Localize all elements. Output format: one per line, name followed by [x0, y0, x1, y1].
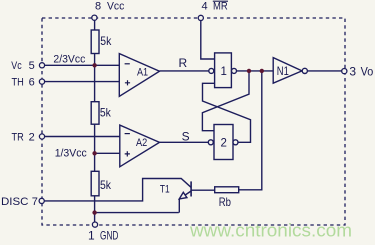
svg-text:www.cntronics.com: www.cntronics.com	[189, 221, 352, 241]
bubble latch1 output	[232, 68, 237, 73]
wire DISC pin7 to T1 collector	[44, 179, 191, 201]
pin 3 terminal	[342, 69, 347, 74]
pin 6 terminal	[39, 79, 44, 84]
pin 8 terminal	[92, 15, 97, 20]
bubble latch2 output	[233, 140, 238, 145]
svg-text:8: 8	[95, 1, 101, 13]
MR overline	[213, 0, 228, 2]
bubble latch2 input	[208, 140, 213, 145]
svg-text:Vcc: Vcc	[107, 1, 125, 13]
pin 2 terminal	[39, 134, 44, 139]
svg-text:S: S	[182, 129, 190, 143]
wire divider chain vertical	[94, 54, 96, 223]
latch block 2	[214, 125, 233, 160]
junction dot 2/3Vcc node	[92, 63, 96, 67]
svg-text:3: 3	[349, 65, 356, 79]
svg-text:MR: MR	[213, 1, 228, 13]
wire N1 output to pin3 Vo	[307, 70, 341, 72]
A2 plus input mark	[125, 151, 130, 156]
svg-text:1: 1	[88, 228, 95, 242]
svg-text:R: R	[179, 56, 188, 70]
T1 emitter arrowhead	[179, 192, 187, 199]
junction dot 1/3Vcc node	[92, 151, 96, 155]
svg-text:5: 5	[29, 60, 35, 72]
svg-text:1/3Vcc: 1/3Vcc	[55, 147, 87, 159]
svg-text:7: 7	[32, 196, 38, 208]
wire MR pin4 to latch block 1	[201, 21, 215, 60]
svg-text:2/3Vcc: 2/3Vcc	[53, 54, 85, 66]
pin 4 terminal	[198, 15, 203, 20]
svg-text:6: 6	[29, 76, 35, 88]
wire feedback latch2 output up to latch1 lower input	[203, 83, 251, 142]
wire S: A2 output to latch 2 input bubble	[160, 141, 210, 143]
svg-text:4: 4	[202, 1, 208, 13]
resistor R1 5k	[91, 30, 99, 54]
svg-text:5k: 5k	[100, 34, 112, 48]
inverter N1	[273, 58, 302, 84]
svg-text:1: 1	[221, 66, 227, 78]
wire R: A1 output to latch 1 input bubble	[160, 70, 210, 72]
pin 7 terminal	[39, 198, 44, 203]
wire feedback latch1 output down to latch2 upper input	[202, 71, 249, 131]
junction dot GND node	[92, 210, 96, 214]
A1 plus input mark	[125, 80, 130, 85]
svg-text:N1: N1	[277, 64, 289, 78]
bubble N1 output	[302, 68, 307, 73]
pin 5 terminal	[39, 63, 44, 68]
svg-text:TH: TH	[12, 76, 24, 88]
wire latch1 output to N1	[237, 70, 274, 72]
svg-text:2: 2	[221, 138, 227, 150]
svg-text:Vo: Vo	[361, 65, 374, 79]
wire GND rail	[95, 212, 179, 214]
wire Vcc stub pin8 to R1	[94, 20, 96, 30]
resistor R2 5k	[91, 102, 99, 125]
svg-text:Rb: Rb	[219, 195, 231, 209]
op-amp comparator A2	[120, 125, 160, 167]
svg-text:DISC: DISC	[1, 196, 29, 208]
A1 minus input mark	[125, 63, 130, 65]
transistor T1 base bar	[190, 181, 192, 196]
wire TH pin6 to A1 plus input	[45, 81, 120, 83]
latch block 1	[215, 53, 232, 88]
svg-text:2: 2	[29, 131, 35, 143]
svg-text:TR: TR	[12, 131, 24, 143]
wire T1 base to Rb	[191, 189, 215, 191]
wire Vc pin5 to node 2/3Vcc to A1 minus input	[45, 64, 120, 66]
svg-text:GND: GND	[100, 228, 119, 242]
pin 1 terminal	[92, 222, 97, 227]
wire TR pin2 to A2 minus input	[45, 136, 120, 138]
junction dot Q node A	[247, 69, 251, 73]
svg-text:Vc: Vc	[11, 60, 22, 72]
op-amp comparator A1	[119, 54, 159, 97]
svg-text:5k: 5k	[100, 178, 112, 192]
junction dot Q node B	[260, 69, 264, 73]
svg-text:A2: A2	[136, 137, 147, 149]
resistor Rb	[215, 187, 239, 193]
wire node 1/3Vcc to A2 plus input	[95, 152, 120, 154]
wire Rb to latch output node	[239, 71, 262, 190]
svg-text:T1: T1	[160, 184, 170, 196]
bubble latch1 input	[209, 68, 214, 73]
svg-text:A1: A1	[137, 66, 148, 78]
A2 minus input mark	[125, 133, 130, 135]
svg-text:5k: 5k	[100, 105, 112, 119]
resistor R3 5k	[91, 171, 99, 196]
transistor T1 emitter	[179, 191, 191, 213]
dashed IC boundary box	[42, 18, 345, 225]
